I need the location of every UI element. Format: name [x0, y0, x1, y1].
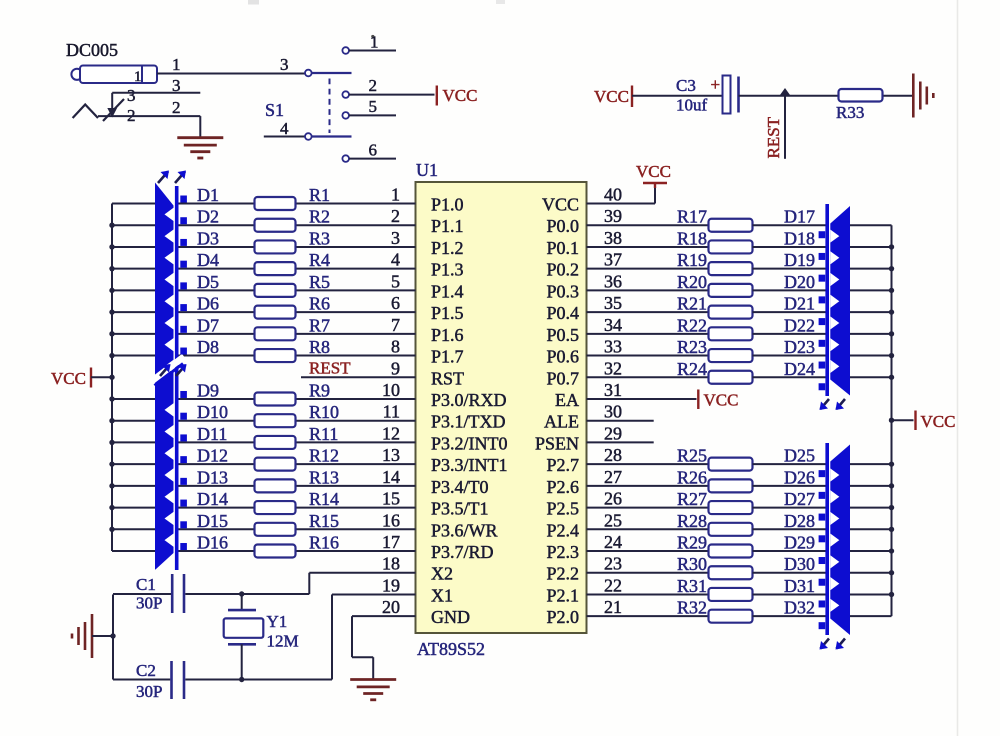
wire LED to bus: [850, 246, 892, 248]
LED tab D30: [819, 579, 826, 586]
svg-text:P0.0: P0.0: [546, 216, 579, 236]
svg-text:P3.3/INT1: P3.3/INT1: [431, 455, 508, 475]
svg-text:P2.4: P2.4: [546, 520, 579, 540]
svg-text:R5: R5: [309, 272, 330, 292]
LED tab D2: [180, 217, 187, 224]
svg-text:R31: R31: [677, 576, 707, 596]
resistor R24: [709, 371, 753, 384]
junction bus: [109, 223, 114, 228]
junction bus: [109, 505, 114, 510]
junction right bus: [889, 288, 894, 293]
svg-text:D12: D12: [197, 446, 228, 466]
LED notch: [165, 425, 174, 438]
svg-text:D19: D19: [784, 250, 815, 270]
svg-text:R11: R11: [309, 424, 338, 444]
resistor R9: [255, 392, 296, 405]
svg-text:1: 1: [172, 55, 181, 74]
resistor R28: [709, 523, 753, 536]
svg-text:R30: R30: [677, 554, 707, 574]
wire LED to bus: [850, 268, 892, 270]
junction right bus: [889, 331, 894, 336]
LED tab D32: [819, 622, 826, 629]
wire VCC to C3: [632, 95, 722, 97]
resistor R27: [709, 501, 753, 514]
LED tab D23: [819, 362, 826, 369]
LED D9 emission arrows: [160, 365, 170, 376]
LED D1 emission arrows: [158, 172, 168, 184]
svg-text:P3.5/T1: P3.5/T1: [431, 499, 489, 519]
LED notch: [165, 490, 174, 503]
wire resistor to pin 10: [296, 398, 416, 400]
svg-text:P3.0/RXD: P3.0/RXD: [431, 390, 507, 410]
svg-text:5: 5: [369, 97, 378, 116]
wire LED to resistor R11: [178, 441, 254, 443]
wire pin to resistor R30: [587, 572, 709, 574]
svg-text:20: 20: [382, 597, 400, 617]
svg-text:22: 22: [604, 575, 622, 595]
svg-text:PSEN: PSEN: [535, 433, 579, 453]
svg-text:29: 29: [604, 423, 622, 443]
wire pin to resistor R25: [587, 463, 709, 465]
LED bank D17-D24 body: [830, 206, 850, 396]
wire LED to resistor R15: [178, 528, 254, 530]
svg-text:P1.4: P1.4: [431, 281, 464, 301]
svg-text:30P: 30P: [136, 682, 162, 701]
wire LED to bus: [850, 376, 892, 378]
junction right bus: [889, 244, 894, 249]
svg-text:16: 16: [382, 510, 400, 530]
wire switch pin4: [264, 136, 305, 138]
resistor R23: [709, 349, 753, 362]
wire bus to LED D2: [112, 224, 155, 226]
wire resistor to LED D26: [753, 485, 826, 487]
junction right bus: [889, 505, 894, 510]
svg-text:30P: 30P: [136, 594, 162, 613]
svg-text:R29: R29: [677, 533, 707, 553]
svg-text:C2: C2: [136, 661, 156, 680]
svg-text:P1.1: P1.1: [431, 216, 464, 236]
LED notch: [830, 490, 839, 503]
wire REST stub to pin 9: [301, 376, 416, 378]
junction bus: [109, 418, 114, 423]
wire resistor to LED D31: [753, 593, 826, 595]
connector DC005 barrel: [71, 69, 82, 80]
wire LED to bus: [850, 572, 892, 574]
resistor R20: [709, 284, 753, 297]
svg-text:D18: D18: [784, 228, 815, 248]
svg-text:15: 15: [382, 489, 400, 509]
wire LED to resistor R4: [178, 268, 254, 270]
LED tab D22: [819, 340, 826, 347]
ground left of C1: [91, 614, 94, 658]
junction bus: [109, 527, 114, 532]
wire resistor to pin 12: [296, 441, 416, 443]
wire bus to LED D10: [112, 420, 155, 422]
LED notch: [165, 316, 174, 329]
resistor R21: [709, 306, 753, 319]
svg-text:P2.2: P2.2: [546, 564, 579, 584]
wire jog to pin19: [332, 593, 416, 595]
LED notch: [830, 316, 839, 329]
svg-text:13: 13: [382, 445, 400, 465]
svg-text:35: 35: [604, 293, 622, 313]
wire resistor to LED D24: [753, 376, 826, 378]
LED notch: [165, 208, 174, 221]
LED tab D29: [819, 557, 826, 564]
LED tab D1: [180, 196, 187, 203]
LED notch: [830, 295, 839, 308]
svg-text:17: 17: [382, 532, 400, 552]
wire LED to bus: [850, 528, 892, 530]
svg-text:D30: D30: [784, 554, 815, 574]
junction right bus: [889, 461, 894, 466]
wire left bus: [111, 204, 113, 552]
svg-text:P0.7: P0.7: [546, 368, 579, 388]
svg-text:P1.6: P1.6: [431, 325, 464, 345]
wire LED to bus: [850, 311, 892, 313]
wire pin to resistor R27: [587, 507, 709, 509]
LED tab D25: [819, 470, 826, 477]
junction right bus: [889, 483, 894, 488]
svg-text:R2: R2: [309, 207, 330, 227]
resistor R4: [255, 262, 296, 275]
svg-text:R28: R28: [677, 511, 707, 531]
ground at pin20: [350, 678, 396, 681]
wire LED to bus: [850, 485, 892, 487]
svg-text:37: 37: [604, 250, 622, 270]
svg-text:D24: D24: [784, 359, 815, 379]
svg-text:R21: R21: [677, 294, 707, 314]
resistor R12: [255, 458, 296, 471]
wire right bus: [891, 225, 893, 616]
stray mark dot: [371, 35, 374, 38]
wire bus to LED D7: [112, 333, 155, 335]
wire pin29 stub PSEN: [587, 441, 654, 443]
svg-text:X1: X1: [431, 585, 453, 605]
LED tab D31: [819, 600, 826, 607]
resistor R6: [255, 306, 296, 319]
svg-text:VCC: VCC: [636, 162, 671, 181]
ground after R33: [912, 74, 915, 118]
wire LED to resistor R6: [178, 311, 254, 313]
wire crystal bottom: [241, 644, 243, 679]
svg-text:R20: R20: [677, 272, 707, 292]
wire LED to resistor R13: [178, 485, 254, 487]
svg-text:C3: C3: [676, 76, 696, 95]
svg-text:P0.2: P0.2: [546, 260, 579, 280]
wire resistor to LED D29: [753, 550, 826, 552]
wire REST vertical: [784, 96, 786, 159]
svg-text:R23: R23: [677, 337, 707, 357]
resistor R1: [255, 197, 296, 210]
svg-text:27: 27: [604, 467, 622, 487]
wire pin to resistor R26: [587, 485, 709, 487]
wire resistor to LED D19: [753, 268, 826, 270]
svg-text:24: 24: [604, 532, 622, 552]
svg-text:D1: D1: [197, 185, 219, 205]
svg-text:26: 26: [604, 489, 622, 509]
svg-text:D4: D4: [197, 250, 219, 270]
svg-text:7: 7: [391, 315, 400, 335]
wire resistor to LED D21: [753, 311, 826, 313]
svg-text:2: 2: [172, 98, 181, 117]
wire down to ground: [199, 116, 201, 138]
wire C3 to R33: [739, 95, 913, 97]
wire resistor to pin 5: [296, 289, 416, 291]
svg-text:VCC: VCC: [704, 390, 739, 409]
LED notch: [165, 251, 174, 264]
resistor R13: [255, 479, 296, 492]
svg-text:2: 2: [369, 76, 378, 95]
wire pin to resistor R22: [587, 333, 709, 335]
svg-text:VCC: VCC: [921, 412, 956, 431]
wire LED to resistor R7: [178, 333, 254, 335]
svg-text:3: 3: [391, 228, 400, 248]
wire bus to VCC: [892, 419, 914, 421]
LED notch: [830, 555, 839, 568]
wire LED to resistor R1: [178, 203, 254, 205]
LED tab D26: [819, 492, 826, 499]
resistor R14: [255, 501, 296, 514]
svg-text:R22: R22: [677, 315, 707, 335]
svg-text:D25: D25: [784, 446, 815, 466]
wire LED to resistor R9: [178, 398, 254, 400]
svg-text:34: 34: [604, 315, 622, 335]
svg-text:D5: D5: [197, 272, 219, 292]
wire bus to LED D9: [112, 398, 155, 400]
svg-text:18: 18: [382, 554, 400, 574]
svg-text:P1.0: P1.0: [431, 195, 464, 215]
resistor R5: [255, 284, 296, 297]
LED tab D10: [180, 413, 187, 420]
junction bus: [109, 440, 114, 445]
svg-text:3: 3: [172, 76, 181, 95]
svg-text:P3.2/INT0: P3.2/INT0: [431, 433, 508, 453]
junction bus: [109, 266, 114, 271]
LED notch: [830, 599, 839, 612]
svg-text:REST: REST: [309, 358, 351, 377]
junction ground tap: [110, 633, 115, 638]
wire C1 to X2 jog: [185, 593, 309, 595]
svg-text:D20: D20: [784, 272, 815, 292]
svg-text:19: 19: [382, 575, 400, 595]
svg-text:D29: D29: [784, 533, 815, 553]
junction bus: [109, 483, 114, 488]
LED D32 emission arrows: [821, 639, 830, 649]
switch S1 contact 4: [305, 133, 312, 140]
LED tab D21: [819, 318, 826, 325]
LED notch: [165, 403, 174, 416]
wire bus to LED D5: [112, 289, 155, 291]
svg-text:39: 39: [604, 206, 622, 226]
wire resistor to LED D30: [753, 572, 826, 574]
junction right bus: [889, 570, 894, 575]
LED tab D6: [180, 304, 187, 311]
junction bus: [109, 331, 114, 336]
wire resistor to LED D25: [753, 463, 826, 465]
svg-text:5: 5: [391, 271, 400, 291]
power VCC at switch: [436, 86, 438, 106]
wire to C1: [113, 593, 171, 595]
svg-text:21: 21: [604, 597, 622, 617]
wire pin31 to VCC: [587, 398, 697, 400]
svg-text:36: 36: [604, 271, 622, 291]
wire resistor to pin 13: [296, 463, 416, 465]
wire jack pin2: [98, 115, 200, 117]
wire contact6 stub: [349, 158, 396, 160]
wire pin to resistor R21: [587, 311, 709, 313]
wire contact1 stub: [349, 50, 396, 52]
svg-text:4: 4: [391, 250, 400, 270]
svg-text:P3.1/TXD: P3.1/TXD: [431, 412, 506, 432]
svg-text:P3.7/RD: P3.7/RD: [431, 542, 494, 562]
svg-text:U1: U1: [416, 160, 438, 180]
wire resistor to LED D28: [753, 528, 826, 530]
LED tab D17: [819, 231, 826, 238]
LED tab D4: [180, 261, 187, 268]
svg-text:1: 1: [134, 69, 142, 85]
LED notch: [830, 512, 839, 525]
svg-text:+: +: [711, 75, 721, 94]
capacitor C1: [171, 574, 174, 613]
resistor R22: [709, 327, 753, 340]
wire bus to LED D1: [112, 203, 155, 205]
LED tab D5: [180, 282, 187, 289]
LED tab D11: [180, 434, 187, 441]
svg-text:D13: D13: [197, 467, 228, 487]
junction right bus: [889, 353, 894, 358]
svg-text:D32: D32: [784, 598, 815, 618]
LED tab D24: [819, 383, 826, 390]
wire pin to resistor R18: [587, 246, 709, 248]
wire LED to bus: [850, 550, 892, 552]
svg-text:D23: D23: [784, 337, 815, 357]
wire bus to LED D14: [112, 507, 155, 509]
power VCC at EA: [697, 389, 699, 409]
svg-text:X2: X2: [431, 564, 453, 584]
switch S1 contact 5: [342, 112, 349, 119]
resistor R29: [709, 545, 753, 558]
resistor R30: [709, 566, 753, 579]
svg-text:VCC: VCC: [443, 86, 478, 105]
svg-text:R18: R18: [677, 228, 707, 248]
wire bus to LED D6: [112, 311, 155, 313]
wire LED to bus: [850, 355, 892, 357]
LED notch: [830, 273, 839, 286]
wire pin to resistor R19: [587, 268, 709, 270]
LED tab D14: [180, 500, 187, 507]
wire jack pin1 to switch: [157, 73, 305, 75]
LED tab D3: [180, 239, 187, 246]
svg-text:EA: EA: [555, 390, 579, 410]
svg-text:R10: R10: [309, 402, 339, 422]
svg-text:AT89S52: AT89S52: [417, 639, 485, 659]
wire LED to resistor R10: [178, 420, 254, 422]
svg-text:6: 6: [369, 141, 378, 160]
svg-text:P3.4/T0: P3.4/T0: [431, 477, 489, 497]
wire resistor to pin 6: [296, 311, 416, 313]
wire jog to pin18: [309, 572, 415, 574]
wire pin to resistor R32: [587, 615, 709, 617]
LED tab D28: [819, 535, 826, 542]
svg-text:P0.5: P0.5: [546, 325, 579, 345]
svg-text:R6: R6: [309, 294, 330, 314]
junction bus: [109, 375, 114, 380]
svg-text:P1.5: P1.5: [431, 303, 464, 323]
resistor R7: [255, 327, 296, 340]
svg-text:D22: D22: [784, 315, 815, 335]
resistor R31: [709, 588, 753, 601]
svg-text:D11: D11: [197, 424, 227, 444]
resistor R11: [255, 436, 296, 449]
svg-text:D27: D27: [784, 489, 815, 509]
wire LED to bus: [850, 463, 892, 465]
svg-text:C1: C1: [136, 575, 156, 594]
svg-text:R9: R9: [309, 380, 330, 400]
junction crystal bottom: [239, 677, 244, 682]
LED tab D9: [180, 391, 187, 398]
resistor R33: [839, 89, 883, 102]
power VCC right: [914, 411, 916, 431]
svg-text:D28: D28: [784, 511, 815, 531]
svg-text:P0.3: P0.3: [546, 281, 579, 301]
svg-text:3: 3: [280, 55, 289, 74]
stray mark top 3: [496, 0, 505, 4]
wire C2 to X1 jog: [185, 679, 332, 681]
svg-text:R27: R27: [677, 489, 707, 509]
junction right bus: [889, 548, 894, 553]
wire contact5 stub: [349, 114, 396, 116]
svg-text:R26: R26: [677, 467, 707, 487]
svg-text:R4: R4: [309, 250, 330, 270]
LED D24 emission arrows: [821, 399, 830, 409]
svg-text:VCC: VCC: [594, 87, 629, 106]
wire pin40 to VCC: [587, 203, 656, 205]
resistor R26: [709, 479, 753, 492]
LED notch: [165, 468, 174, 481]
wire LED to resistor R12: [178, 463, 254, 465]
svg-text:12M: 12M: [267, 632, 299, 651]
svg-text:P2.5: P2.5: [546, 499, 579, 519]
LED notch: [830, 577, 839, 590]
svg-text:30: 30: [604, 402, 622, 422]
LED notch: [165, 447, 174, 460]
wire resistor to pin 17: [296, 550, 416, 552]
LED notch: [165, 273, 174, 286]
svg-text:1: 1: [391, 185, 400, 205]
svg-text:32: 32: [604, 358, 622, 378]
node REST junction: [780, 88, 790, 95]
switch S1 contact 1: [342, 47, 349, 54]
svg-text:9: 9: [391, 358, 400, 378]
wire pin to resistor R20: [587, 289, 709, 291]
svg-text:33: 33: [604, 337, 622, 357]
wire resistor to pin 16: [296, 528, 416, 530]
junction bus: [109, 461, 114, 466]
switch S1 pole bar bottom: [312, 135, 352, 137]
wire LED to resistor R16: [178, 550, 254, 552]
LED tab D12: [180, 456, 187, 463]
LED tab D19: [819, 275, 826, 282]
svg-text:11: 11: [383, 402, 400, 422]
svg-text:R8: R8: [309, 337, 330, 357]
svg-text:R15: R15: [309, 511, 339, 531]
resistor R15: [255, 523, 296, 536]
svg-text:R14: R14: [309, 489, 339, 509]
resistor R8: [255, 349, 296, 362]
svg-text:1: 1: [370, 33, 379, 52]
wire pin to resistor R23: [587, 355, 709, 357]
